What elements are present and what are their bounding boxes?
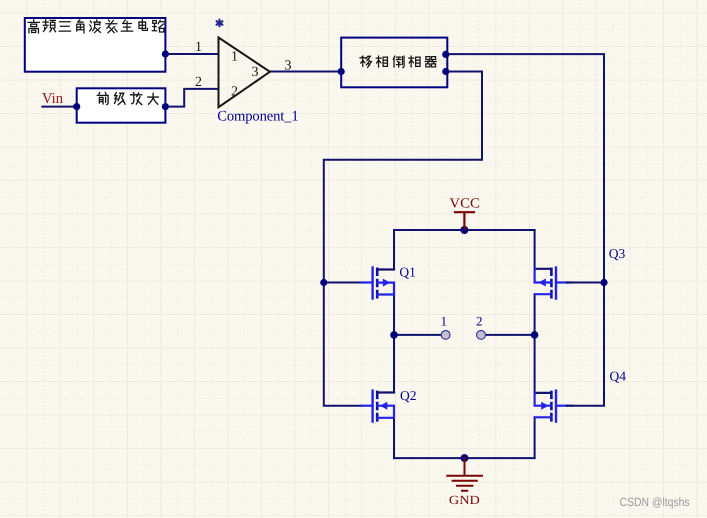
wire right leg drain Q4 xyxy=(534,335,536,393)
svg-text:3: 3 xyxy=(285,59,292,74)
svg-text:3: 3 xyxy=(252,65,259,80)
wire phase-shifter top output to right gate bus xyxy=(447,54,604,406)
wire right leg source Q3 to mid node xyxy=(534,294,536,335)
wire from preamp output up to op-amp input 2 xyxy=(165,89,218,107)
junction GND at bottom rail xyxy=(461,454,469,462)
transistor Q2 (left low side MOSFET) xyxy=(362,391,395,422)
junction at phase-shifter top output xyxy=(442,51,449,58)
block U-B 前级放大 (pre-amplifier) xyxy=(77,88,166,122)
junction left bus at Q1 gate xyxy=(320,279,327,286)
junction VCC to top rail xyxy=(460,226,468,234)
svg-text:VCC: VCC xyxy=(449,197,480,212)
node pad 2 (bridge output right) xyxy=(477,331,486,340)
wire mid rail to pad 1 xyxy=(394,334,441,336)
block label text 高频三角波发生电路 xyxy=(28,20,164,33)
junction at block1 output xyxy=(162,50,169,57)
wire Vin lead xyxy=(42,106,76,108)
wire op-amp output to phase-shifter box xyxy=(270,71,341,73)
red asterisk marker above op-amp xyxy=(217,20,223,27)
op-amp U Component_1 triangle xyxy=(219,38,270,108)
svg-text:2: 2 xyxy=(476,314,483,329)
svg-text:Vin: Vin xyxy=(42,91,63,107)
wire left leg drain Q1 xyxy=(393,230,395,270)
junction at phase-shifter bottom output xyxy=(442,68,449,75)
block label text 前级放大 xyxy=(97,92,158,104)
wire Q3 gate stub xyxy=(572,282,605,284)
block U-A 高频三角波发生电路 (triangle wave generator) xyxy=(25,18,166,72)
power symbol VCC xyxy=(455,212,474,229)
transistor Q1 (left high side MOSFET) xyxy=(362,268,395,299)
wire GND bottom rail xyxy=(394,457,535,459)
wire right leg source Q4 to bottom rail xyxy=(534,417,536,458)
svg-text:Q4: Q4 xyxy=(610,369,627,384)
wire left leg source Q2 to bottom rail xyxy=(393,418,395,458)
svg-text:GND: GND xyxy=(449,493,480,507)
junction left mid rail xyxy=(390,331,398,339)
ground symbol GND xyxy=(447,458,482,491)
wire pad 2 to mid rail right xyxy=(485,334,534,336)
svg-text:1: 1 xyxy=(441,314,448,329)
junction at preamp output xyxy=(162,103,169,110)
block label text 移相倒相器 xyxy=(360,56,437,68)
wire right leg drain Q3 xyxy=(534,230,536,269)
junction right mid rail xyxy=(531,331,539,339)
transistor Q3 (right high side MOSFET, mirrored) xyxy=(535,268,572,299)
wire phase-shifter bottom output to left gate bus xyxy=(324,72,482,406)
wire left leg source Q1 to mid node xyxy=(393,295,395,335)
junction right bus at Q3 gate xyxy=(600,279,607,286)
wire Q1 gate stub xyxy=(324,282,362,284)
svg-text:1: 1 xyxy=(231,50,238,65)
wire left leg drain Q2 xyxy=(393,335,395,393)
transistor Q4 (right low side MOSFET, mirrored) xyxy=(535,391,572,422)
svg-text:2: 2 xyxy=(231,85,238,100)
svg-text:CSDN @ltqshs: CSDN @ltqshs xyxy=(620,495,690,509)
node pad 1 (bridge output left) xyxy=(441,331,450,340)
junction at phase-shifter input xyxy=(338,68,345,75)
junction at preamp input xyxy=(73,103,80,110)
svg-text:Q1: Q1 xyxy=(399,265,416,280)
svg-text:Q2: Q2 xyxy=(400,388,417,403)
svg-text:2: 2 xyxy=(195,75,202,90)
block U-C 移相倒相器 (phase shifter / inverter) xyxy=(341,38,447,88)
svg-text:Component_1: Component_1 xyxy=(217,109,299,125)
wire VCC top rail xyxy=(394,229,535,231)
svg-text:Q3: Q3 xyxy=(609,246,626,261)
svg-text:1: 1 xyxy=(195,40,202,55)
wire pin1 from block1 to op-amp input 1 xyxy=(165,53,218,55)
